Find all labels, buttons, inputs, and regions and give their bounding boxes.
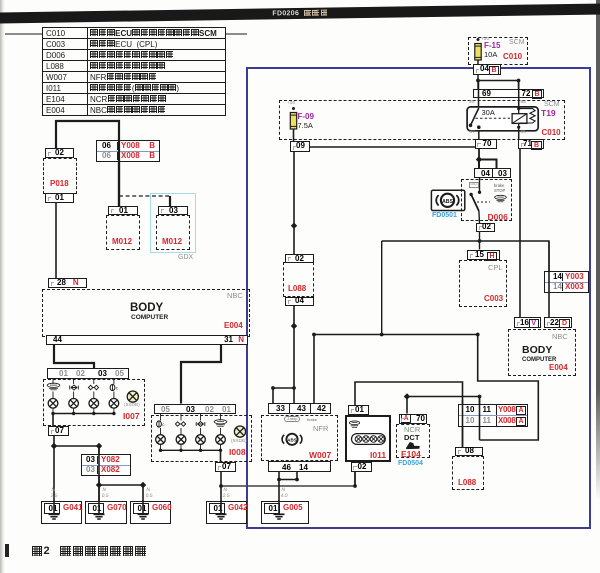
- label BODY right: [522, 345, 552, 356]
- splice diamond at 70: [476, 156, 482, 162]
- wire P018-01 to NBC pin 28: [55, 203, 57, 278]
- label T19: [541, 109, 556, 118]
- lamp pin stub I008: [220, 414, 222, 421]
- lamp to bus stub I008: [180, 444, 182, 450]
- wire into Y082-03: [98, 446, 100, 454]
- lamp stub: [73, 392, 75, 399]
- lamp stub I008: [200, 428, 202, 435]
- wire to ground G041: [53, 446, 55, 501]
- label C010 relay: [542, 129, 561, 137]
- lamp pin stub I008: [200, 414, 202, 421]
- connector of W007 pins 33 43 42: [268, 403, 331, 414]
- relay pin label 86: [521, 101, 526, 106]
- junction NFR-33: [271, 386, 275, 390]
- wire I008-07 to ground G042: [220, 472, 222, 501]
- wire L088-04 down: [293, 306, 295, 388]
- wire crossing Y003 connector to NBC 22D: [548, 242, 550, 318]
- label 5XDB: [124, 404, 140, 409]
- relay T19 coil: [512, 114, 527, 124]
- junction I008 ground with I011 ground wire: [219, 484, 223, 488]
- side lamp icon I008: [175, 422, 185, 426]
- junction I011 ground end: [353, 484, 357, 488]
- tail lamp icon I007: [70, 385, 79, 390]
- ground symbol G005: [274, 501, 285, 520]
- connector pin 02 of L088: [285, 254, 314, 263]
- wire D006 output down to bus: [381, 241, 383, 335]
- component SCM underhood fuse relay box: [279, 100, 565, 140]
- stop lamp bulb I007: [48, 399, 58, 409]
- connector pin 70: [475, 139, 498, 149]
- wire Y008-06 to M012-01: [118, 162, 120, 207]
- stop lamp bulb I008: [156, 435, 166, 445]
- label L088 right: [458, 479, 476, 487]
- label 7.5A: [298, 122, 313, 130]
- relay pin label 87: [470, 131, 475, 136]
- bulb icon I007: [110, 384, 119, 390]
- label L088: [288, 285, 306, 293]
- connector pin 01 of M012: [108, 206, 138, 215]
- ground symbol G070: [94, 501, 105, 520]
- component I008 stop lamp cluster right: [151, 415, 252, 462]
- connector pin 04 of L088: [285, 297, 314, 307]
- label C003: [484, 295, 503, 303]
- connector Y008/X008 pins 10 11 A: [458, 404, 528, 427]
- wire 72 to relay 86: [518, 81, 520, 107]
- connector pin 71 B: [518, 139, 544, 149]
- wire 46-14 tie: [279, 479, 297, 481]
- connector Y003/X003 pin 14: [544, 271, 589, 293]
- wire crossing Y008A connector pin 11: [479, 397, 481, 441]
- stop lamp bulb I007: [69, 399, 79, 409]
- component E004 NBC body computer right: [508, 329, 576, 376]
- lamp pin stub: [113, 379, 115, 384]
- label FD0504: [398, 460, 423, 467]
- lamp to bus stub: [113, 408, 115, 413]
- stop telltale icon I008: [214, 420, 227, 427]
- label D006: [488, 213, 508, 222]
- wire W007-14 down: [296, 472, 298, 480]
- wire I007-07 down: [53, 436, 55, 446]
- splice diamond on brake feed: [291, 223, 297, 229]
- connector of I007 pins 01 02 03 05: [47, 368, 129, 379]
- separator line: [0, 33, 247, 35]
- wire splice to G060 branch: [99, 484, 143, 486]
- wire D006 output to Y003-14: [480, 241, 550, 272]
- label I011: [370, 451, 386, 460]
- label 10A: [484, 51, 497, 59]
- junction 04B split: [476, 79, 480, 83]
- label P018: [50, 180, 69, 188]
- splice diamond below X082: [96, 482, 102, 488]
- I011 LED strip lamp: [352, 434, 386, 445]
- wire bus wrap around connector: [478, 335, 539, 441]
- wire branch to D006 pin 03: [479, 160, 497, 169]
- wire to ground G070: [98, 485, 100, 501]
- connector pin 15 H of CPL: [467, 250, 500, 261]
- label NCR: [404, 426, 420, 434]
- connector Y082/X082 pin 03: [81, 454, 131, 476]
- label C010 F-15: [503, 53, 522, 61]
- relay actuation dashed link: [476, 117, 511, 119]
- connector pin A 70 of E104: [399, 414, 427, 425]
- label CPL: [488, 264, 503, 272]
- lamp stub I008: [180, 428, 182, 435]
- wire D006 output to bus drop: [382, 240, 480, 242]
- lamp ground bus I007: [53, 413, 114, 415]
- connector Y008/X008 pin 06: [96, 140, 160, 162]
- component P018 antenna module: [43, 158, 77, 194]
- lamp stub: [52, 392, 54, 399]
- wire F-15 to pin 04: [477, 60, 479, 65]
- GDX variant highlight box: [150, 193, 196, 253]
- connector pin 08 of L088 right: [455, 447, 483, 457]
- label 30A: [482, 109, 495, 117]
- label FD0501: [432, 212, 457, 219]
- component W007 NFR brake system node: [261, 415, 338, 461]
- label GDX: [178, 254, 193, 261]
- wire label N 0.5: [145, 487, 154, 499]
- wire to Y008 pin 11: [479, 397, 481, 405]
- wire F-09 to pin 09: [293, 130, 295, 142]
- connector pin 07 of I008: [215, 462, 236, 472]
- connector pins 69 and 72 B of relay T19: [473, 89, 544, 98]
- connector of I008 pins 05 03 02 01: [154, 404, 236, 415]
- ground G005: [261, 501, 309, 525]
- label +30 feed F-09: [287, 102, 295, 107]
- side lamp icon I007: [88, 385, 98, 389]
- lamp stub: [93, 392, 95, 399]
- figure caption 图2 制动灯控制电路: [31, 545, 146, 557]
- wire Y082 down: [98, 476, 100, 486]
- junction bus to D006 wire: [380, 333, 384, 337]
- junction 14: [295, 478, 299, 482]
- stop telltale icon I011: [349, 421, 359, 427]
- wire I008 bus to pin 07: [220, 450, 222, 462]
- label I008: [229, 448, 246, 457]
- ground symbol G060: [138, 501, 149, 520]
- page scan left edge strip: [0, 0, 5, 573]
- label E104: [401, 450, 421, 459]
- wire 70 down: [478, 149, 480, 160]
- label STOP: [494, 189, 505, 193]
- connector pin 07 of I007: [48, 426, 69, 436]
- label M012 GDX: [162, 238, 182, 246]
- wire to ground G005: [278, 480, 280, 502]
- lamp ground bus I008: [161, 449, 221, 451]
- relay coil wires: [518, 107, 520, 131]
- tail lamp icon I008: [196, 421, 205, 426]
- connector pin 01 of I011: [348, 405, 369, 415]
- label BODY computer: [130, 303, 163, 315]
- lamp to bus stub I008: [200, 444, 202, 450]
- junction NFR-43: [292, 386, 296, 390]
- ground symbol G042: [216, 501, 227, 520]
- wire 69 to relay 30: [478, 81, 480, 107]
- label F-09: [298, 113, 314, 121]
- icon ABS module FD0501: [431, 190, 464, 210]
- lamp pin stub I008: [160, 414, 162, 421]
- lamp pin stub I008: [180, 414, 182, 421]
- junction 46: [277, 478, 281, 482]
- connector pin 28 N of body computer: [48, 278, 87, 289]
- label I007: [123, 412, 140, 421]
- wire to E104 pin 70: [406, 397, 408, 414]
- label E004: [224, 322, 243, 330]
- lamp pin stub: [93, 379, 95, 384]
- component SCM fuse F-15 block: [468, 37, 528, 65]
- label F-15: [484, 42, 500, 50]
- stop lamp bulb I008: [216, 435, 226, 445]
- relay coil top node: [517, 107, 520, 110]
- wire bus to NFR pin 42: [313, 335, 315, 404]
- splice diamond below L088: [291, 323, 297, 329]
- label SCM F-15: [509, 39, 525, 46]
- label COMPUTER right: [522, 357, 556, 363]
- connector of W007 pins 46 14: [268, 461, 331, 472]
- label brake tiny: [307, 418, 317, 422]
- switch contacts D006: [469, 178, 481, 224]
- label NBC: [227, 292, 243, 300]
- wire P018-02 to Y008-06: [56, 121, 119, 148]
- wire to NFR pin 43: [293, 388, 295, 403]
- wire label N 4.0: [280, 487, 289, 499]
- label J-stop icon: [284, 418, 300, 422]
- E104 shift pedal icon: [407, 443, 420, 449]
- switch dashed actuation line: [477, 201, 490, 203]
- lamp pin stub: [52, 379, 54, 384]
- relay T19 switch contacts: [469, 108, 481, 129]
- stop telltale icon I007: [47, 383, 60, 390]
- component L088 third stop lamp relay switch: [283, 262, 314, 296]
- junction bus to NFR-42: [312, 333, 316, 337]
- connector pin 22 D of NBC: [544, 317, 572, 328]
- wire I011-01 to L088b-08: [355, 382, 463, 447]
- wire branch to 72: [478, 81, 519, 90]
- wire crossing Y082 connector: [98, 446, 100, 501]
- splice diamond to Y082: [96, 443, 102, 449]
- junction D006 output: [478, 239, 482, 243]
- figure caption bar: [5, 544, 9, 557]
- wire NBC-44 to stop lamp connector I007-03: [54, 345, 94, 369]
- stop lamp bulb I008: [176, 435, 186, 445]
- stop lamp bulb I007: [89, 399, 99, 409]
- title bar FD0206: [0, 3, 600, 23]
- connector pin 02 of I011: [351, 462, 372, 472]
- label DCT: [404, 434, 419, 442]
- label E004 right: [549, 364, 568, 372]
- NBC bottom pin row pins 44 and 31: [46, 335, 248, 345]
- lamp pin stub: [73, 379, 75, 384]
- connector pin 09 of SCM: [290, 141, 310, 152]
- label NBC right: [552, 333, 568, 341]
- dashed branch wire to M012-03: [119, 195, 170, 197]
- label COMPUTER: [131, 315, 168, 322]
- label NFR: [313, 425, 328, 433]
- component L088 third stop lamp relay right: [452, 456, 484, 490]
- fuse F-09 7.5A: [290, 107, 296, 129]
- relay T19 outline: [467, 107, 538, 131]
- component E104 NCR transmission control node: [396, 424, 430, 458]
- wire branch into M012-03: [169, 196, 171, 206]
- lamp stub I008: [220, 428, 222, 435]
- label M012: [112, 238, 132, 246]
- component M012 brake pedal connector: [106, 215, 140, 251]
- ground G042: [206, 501, 247, 525]
- main circuit blue border box: [246, 67, 591, 529]
- lamp to bus stub: [73, 408, 75, 413]
- splice diamond left: [51, 443, 57, 449]
- label brake: [494, 184, 504, 188]
- wire 71B to NBC 16V: [519, 149, 521, 318]
- junction pin 11 wire: [478, 395, 482, 399]
- junction bus right end: [476, 333, 480, 337]
- wire relay 85 to pin 71: [518, 131, 520, 139]
- wire 09 to L088-02: [293, 152, 295, 255]
- wire relay 87 to pin 70: [478, 131, 480, 139]
- wire I011-02 ground link: [221, 485, 355, 487]
- bulb icon I008: [157, 421, 166, 427]
- connector pin 03 of M012 (GDX): [158, 206, 188, 215]
- wire NBC-31 to stop lamp connector I008-03: [181, 345, 221, 404]
- wire splice to Y082: [54, 445, 99, 447]
- lamp stub: [113, 392, 115, 399]
- component M012 brake pedal connector GDX variant: [156, 215, 190, 251]
- wire D006-02 to CPL 15: [479, 232, 481, 250]
- ground G041: [41, 501, 82, 525]
- label SCM relay: [544, 101, 560, 108]
- fuse F-15 10A: [475, 38, 481, 60]
- label W007: [309, 451, 331, 460]
- wire I011-02 ground: [354, 472, 356, 487]
- splice diamond G060: [140, 482, 146, 488]
- relay T19 resistor: [519, 109, 535, 123]
- label +30 feed F-15: [481, 38, 489, 43]
- wire label N 2.5: [50, 487, 59, 499]
- wire label N 0.5: [101, 487, 110, 499]
- component I011 auxiliary stop lamp: [345, 415, 391, 462]
- wire split to NFR 33/43: [273, 387, 294, 389]
- icon ABS in W007: [282, 434, 302, 445]
- stop lamp bulb I008: [196, 435, 206, 445]
- stop lamp bulb I007: [109, 399, 119, 409]
- lamp to bus stub I008: [160, 444, 162, 450]
- relay coil bottom node: [517, 126, 520, 129]
- wire crossing Y008 connector: [118, 141, 120, 206]
- auxiliary lamp bulb 5XDB I008: [234, 426, 245, 437]
- wire label N 2.5: [222, 487, 231, 499]
- relay pin label 30: [469, 101, 474, 106]
- lamp stub I008: [160, 428, 162, 435]
- label 5XDB I008: [231, 440, 247, 445]
- wire to D006 pin 04: [478, 160, 480, 169]
- wire W007-46 down: [278, 472, 280, 480]
- legend table: [42, 27, 226, 116]
- connector pin 16 V of NBC: [514, 317, 541, 328]
- lamp to bus stub: [93, 408, 95, 413]
- stop telltale icon D006: [495, 195, 507, 201]
- wire 04B down: [477, 75, 479, 90]
- ground G060: [130, 501, 171, 525]
- wire E104 link: [407, 396, 480, 398]
- lamp to bus stub: [52, 408, 54, 413]
- wire pin 09 to pin 70 link: [310, 146, 480, 148]
- wire to NFR pin 33: [272, 388, 274, 403]
- wire to ground G060: [142, 485, 144, 501]
- ground symbol G041: [49, 501, 60, 520]
- junction to 72B: [517, 79, 521, 83]
- wire crossing Y008A connector to L088-08: [462, 400, 464, 447]
- splice diamond E104: [404, 393, 410, 399]
- stop lamp signal bus: [314, 334, 478, 336]
- connector pin 01 of P018: [45, 193, 74, 203]
- wire I007 bus to pin 07: [52, 414, 54, 427]
- component D006 stop lamp switch: [461, 179, 512, 222]
- connector pin 02 of P018: [45, 148, 74, 158]
- page scan right edge strip: [596, 0, 600, 500]
- connector pins 04 03 of D006: [474, 168, 511, 178]
- label switch detail: [469, 182, 480, 188]
- ground G070: [85, 501, 127, 525]
- connector pin 04 B: [473, 64, 501, 75]
- component E004 NBC body computer: [42, 289, 250, 337]
- lamp to bus stub I008: [220, 444, 222, 450]
- connector pin 02 of D006: [476, 223, 495, 233]
- component C003 instrument panel CPL: [459, 260, 508, 307]
- auxiliary lamp bulb 5XDB I007: [127, 391, 138, 402]
- component I007 stop lamp cluster left: [43, 379, 145, 426]
- relay pin label 85: [521, 131, 526, 136]
